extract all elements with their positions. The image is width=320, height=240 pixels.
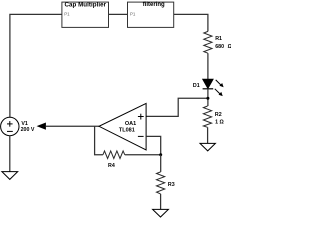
wire R1 to D1 bbox=[207, 53, 209, 79]
wire R3 to ground bbox=[160, 194, 162, 210]
wire between Cap Multiplier and filtering bbox=[109, 13, 128, 15]
wire from filtering right port to R1 top bbox=[174, 14, 208, 31]
svg-text:R4: R4 bbox=[108, 163, 115, 169]
svg-text:OA1: OA1 bbox=[125, 121, 136, 127]
resistor R3 bbox=[157, 172, 175, 194]
ground under V1 bbox=[2, 172, 18, 180]
wire op-amp - input down to R3/R4 node bbox=[146, 136, 161, 154]
svg-text:R1: R1 bbox=[215, 36, 222, 42]
svg-text:P1: P1 bbox=[130, 11, 136, 16]
svg-text:P1: P1 bbox=[64, 11, 70, 16]
junction dot at R3/R4 node bbox=[159, 153, 162, 156]
svg-text:D1: D1 bbox=[193, 83, 200, 89]
output arrow (port) bbox=[37, 123, 46, 130]
svg-text:R3: R3 bbox=[168, 182, 175, 188]
resistor R2 bbox=[203, 106, 224, 127]
junction dot at D1/R2 node bbox=[206, 97, 209, 100]
LED arrow 2 bbox=[215, 89, 220, 94]
svg-text:R2: R2 bbox=[215, 112, 222, 118]
ground under R3 bbox=[153, 209, 169, 217]
svg-text:filtering: filtering bbox=[143, 2, 165, 8]
block P1 filtering bbox=[128, 2, 174, 27]
block P1 Cap Multiplier bbox=[62, 1, 109, 27]
svg-text:Cap Multiplier: Cap Multiplier bbox=[64, 1, 106, 8]
ground under R2 bbox=[200, 143, 215, 151]
svg-text:TL081: TL081 bbox=[119, 128, 135, 134]
wire V1 to ground bbox=[9, 136, 11, 172]
voltage source V1 bbox=[1, 117, 35, 135]
op-amp OA1 TL081 bbox=[99, 103, 146, 150]
wire output branch down to R4 bbox=[95, 126, 103, 155]
wire arrow to op-amp output bbox=[46, 125, 99, 127]
svg-text:200 V: 200 V bbox=[21, 127, 35, 133]
resistor R4 bbox=[103, 151, 125, 169]
svg-text:680: 680 bbox=[215, 44, 224, 50]
wire R2 to ground bbox=[207, 127, 209, 143]
resistor R1 bbox=[204, 31, 233, 53]
wire from Cap Multiplier left port to V1 top bbox=[10, 14, 62, 117]
svg-text:Ω: Ω bbox=[228, 44, 231, 50]
diode D1 (LED) bbox=[193, 79, 224, 96]
svg-text:1 Ω: 1 Ω bbox=[215, 119, 224, 125]
LED arrow 1 bbox=[216, 80, 221, 85]
wire node to R3 bbox=[160, 155, 162, 172]
wire R4 to node bbox=[125, 154, 161, 156]
wire D1 to R2 with node bbox=[207, 89, 209, 106]
wire op-amp + input to diode/R2 node bbox=[146, 98, 208, 116]
